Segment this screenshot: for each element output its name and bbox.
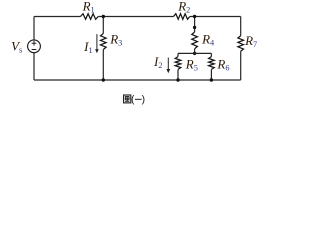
node R6 bottom junction	[210, 78, 213, 81]
wire R6 top lead	[210, 53, 212, 56]
wire R4 top lead	[194, 17, 196, 33]
wire top-left segment	[34, 16, 81, 18]
wire right edge upper	[240, 17, 242, 36]
resistor R5	[175, 57, 181, 70]
resistor R3	[101, 34, 107, 50]
wire bottom edge	[34, 79, 241, 81]
wire R3 bottom lead	[102, 50, 104, 81]
wire left edge lower	[33, 53, 35, 80]
wire R5 top lead	[177, 53, 179, 56]
wire middle horizontal	[178, 52, 211, 54]
current arrow I2	[166, 58, 170, 74]
node R5 bottom junction	[176, 78, 179, 81]
resistor R6	[209, 57, 215, 70]
resistor R7	[238, 36, 244, 51]
resistor R2	[174, 14, 190, 20]
svg-text:(: (	[131, 95, 135, 106]
voltage source Vs	[28, 40, 41, 53]
wire right edge lower	[240, 51, 242, 80]
wire R6 bottom lead	[210, 69, 212, 80]
node R4 middle wire junction	[193, 52, 196, 55]
wire R4 bottom lead	[194, 49, 196, 54]
wire R5 bottom lead	[177, 69, 179, 80]
resistor R4	[192, 32, 198, 49]
node R3 top junction	[102, 15, 105, 18]
current arrow I1	[95, 34, 99, 53]
wire R3 top lead	[102, 17, 104, 34]
svg-text:): )	[142, 95, 145, 106]
node R4 top wire junction	[193, 15, 196, 18]
resistor R1	[81, 14, 99, 20]
node R4 upper lead junction	[193, 26, 196, 29]
wire top right segment	[190, 16, 241, 18]
caption 圖(一)	[124, 95, 145, 106]
node R3 bottom junction	[102, 78, 105, 81]
wire left edge upper	[33, 17, 35, 40]
wire top middle segment	[98, 16, 173, 18]
